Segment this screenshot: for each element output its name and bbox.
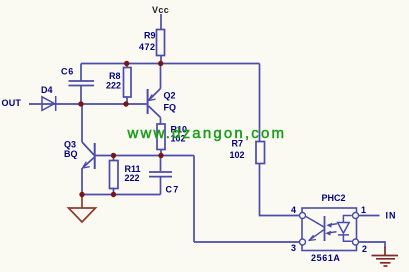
- junction R11 bottom: [111, 192, 116, 197]
- capacitor C6: [69, 81, 95, 86]
- junction R8-OUT: [123, 101, 128, 106]
- svg-text:C7: C7: [166, 185, 180, 195]
- svg-text:222: 222: [106, 81, 121, 91]
- wire Q3 collector vertical: [81, 104, 83, 142]
- wire R9 bottom stub: [160, 55, 162, 64]
- resistor R10: [157, 124, 165, 150]
- svg-text:472: 472: [139, 42, 156, 52]
- wire Q3 base row: [96, 155, 195, 157]
- ground earth: [372, 247, 399, 266]
- svg-text:102: 102: [230, 150, 245, 160]
- wire R11 bottom stub: [113, 189, 115, 195]
- svg-text:2561A: 2561A: [311, 253, 341, 263]
- resistor R11: [110, 161, 119, 189]
- wire C6 lower lead: [80, 86, 82, 105]
- opto light arrows: [325, 223, 337, 236]
- diode D4: [42, 96, 56, 111]
- svg-text:Vcc: Vcc: [152, 5, 169, 15]
- wire R7 to opto pin 4: [260, 164, 300, 216]
- wire to opto pin 3: [194, 241, 300, 243]
- wire opto pin 2 to ground: [359, 242, 386, 248]
- opto pin 4 circle: [300, 213, 306, 219]
- opto pin 3 circle: [300, 239, 306, 245]
- resistor R8: [124, 68, 132, 98]
- junction C6-OUT: [78, 101, 83, 106]
- wire R8 top stub: [126, 64, 128, 68]
- optocoupler U1 PHC2 box: [302, 208, 357, 251]
- svg-text:2: 2: [362, 244, 367, 254]
- transistor Q3: [82, 142, 95, 169]
- svg-text:R8: R8: [109, 71, 121, 81]
- wire C7 bottom lead: [160, 177, 162, 195]
- wire OUT line: [29, 103, 147, 105]
- opto pin 2 circle: [353, 239, 359, 245]
- svg-text:Q3: Q3: [64, 140, 76, 150]
- junction R9-top bus: [158, 61, 163, 66]
- opto internal phototransistor: [306, 216, 325, 241]
- wire R11 top stub: [113, 156, 115, 161]
- wire Q2 collector vertical: [160, 64, 162, 89]
- wire opto pin 1 to IN: [359, 215, 380, 217]
- svg-text:IN: IN: [386, 211, 397, 221]
- wire C6 upper lead: [80, 64, 82, 82]
- svg-text:R9: R9: [144, 31, 156, 41]
- svg-text:222: 222: [125, 173, 140, 183]
- wire Vcc stub: [160, 14, 162, 30]
- wire R7 top vertical: [259, 64, 261, 142]
- wire Q2 emitter to R10: [160, 118, 162, 125]
- wire Q3 emitter vertical: [81, 168, 83, 195]
- svg-text:4: 4: [291, 205, 296, 215]
- junction Q3 emitter bottom: [79, 192, 84, 197]
- opto pin 1 circle: [353, 213, 359, 219]
- wire top bus: [81, 63, 260, 65]
- svg-text:BQ: BQ: [64, 149, 78, 159]
- svg-text:www.dzangon,com: www.dzangon,com: [127, 125, 285, 142]
- svg-text:OUT: OUT: [2, 98, 22, 108]
- wire R10 bottom stub: [160, 150, 162, 156]
- junction R10 bottom: [158, 153, 163, 158]
- junction R8-top bus: [124, 61, 129, 66]
- svg-text:FQ: FQ: [164, 103, 177, 113]
- svg-text:C6: C6: [61, 67, 74, 77]
- ground signal: [69, 196, 96, 222]
- svg-text:PHC2: PHC2: [322, 193, 346, 203]
- junction R11 top: [111, 153, 116, 158]
- opto internal LED: [338, 216, 352, 242]
- wire R8 bottom stub: [126, 97, 128, 104]
- transistor Q2: [148, 89, 161, 118]
- svg-text:1: 1: [361, 205, 366, 215]
- resistor R9: [157, 30, 165, 56]
- wire C7 top lead: [160, 156, 162, 172]
- svg-text:D4: D4: [41, 85, 53, 95]
- capacitor C7: [149, 172, 172, 177]
- svg-text:Q2: Q2: [164, 91, 176, 101]
- wire bottom row: [82, 194, 161, 196]
- resistor R7: [256, 142, 265, 164]
- wire down from base row: [193, 156, 195, 243]
- svg-text:3: 3: [291, 243, 296, 253]
